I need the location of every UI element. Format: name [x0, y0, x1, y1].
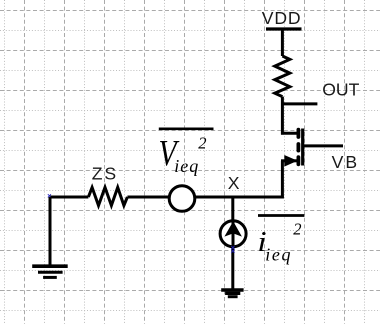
ground (left): [32, 266, 67, 277]
power rail bar VDD: [266, 27, 302, 30]
svg-text:ieq: ieq: [265, 245, 292, 265]
wire OUT stub: [281, 102, 317, 105]
current source arrow shaft: [232, 222, 235, 247]
svg-text:VB: VB: [332, 152, 359, 172]
label iieq^2: [257, 220, 301, 265]
svg-text:OUT: OUT: [322, 79, 359, 99]
MOSFET drain stub: [281, 132, 298, 135]
MOSFET source stub with arrow: [281, 159, 297, 162]
label iieq^2 overline: [258, 214, 304, 217]
MOSFET source arrowhead: [284, 155, 297, 167]
wire ZS right lead to voltage source: [127, 196, 168, 199]
svg-text:2: 2: [293, 220, 301, 239]
svg-text:VDD: VDD: [262, 8, 302, 28]
ground (bottom, small): [221, 290, 243, 297]
resistor ZS (horizontal): [88, 187, 127, 205]
wire source to node X: [281, 161, 284, 199]
MOSFET gate wire to VB: [303, 144, 343, 147]
current source arrowhead: [224, 221, 242, 236]
wire VDD bar to resistor top: [281, 29, 284, 56]
svg-text:2: 2: [198, 133, 206, 152]
blue port marker at ZS left corner: [48, 194, 51, 197]
wire left of voltage source: [50, 196, 89, 199]
blue port markers at current source bottom: [231, 246, 234, 253]
wire current source to ground: [231, 247, 234, 289]
svg-text:X: X: [228, 173, 240, 193]
wire resistor bottom to drain: [281, 97, 284, 135]
wire node X down to current source: [231, 197, 234, 222]
MOSFET channel (dashed bar): [296, 130, 300, 165]
svg-text:ZS: ZS: [92, 163, 118, 183]
resistor (load, vertical): [275, 56, 290, 97]
node X net wire (right of source circle): [195, 196, 284, 199]
MOSFET gate plate: [301, 129, 304, 166]
svg-text:ieq: ieq: [174, 156, 199, 176]
label Vieq^2: [159, 133, 207, 176]
voltage source Vieq (circle): [169, 186, 195, 212]
label Vieq^2 overline: [159, 128, 214, 131]
wire left corner down to ground: [49, 197, 52, 266]
current source iieq (circle): [220, 221, 246, 247]
